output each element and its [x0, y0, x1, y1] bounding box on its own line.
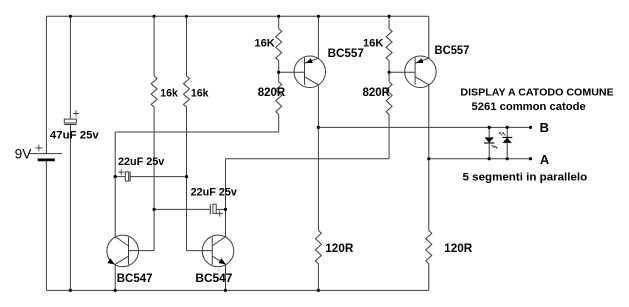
led D2 bottom lead	[506, 143, 509, 160]
wire 120R R8 bottom lead	[428, 264, 430, 291]
svg-text:120R: 120R	[325, 243, 354, 255]
wire Q2 collector riser	[225, 159, 227, 237]
wire U2 emitter from rail	[428, 16, 430, 58]
capacitor C2 22uF body	[125, 171, 130, 181]
svg-text:22uF 25v: 22uF 25v	[191, 187, 238, 199]
resistor R3 16K body	[276, 29, 282, 61]
node B line	[318, 126, 532, 129]
label display subtitle	[472, 101, 586, 113]
capacitor C3 plus sign	[217, 210, 223, 216]
wire U2 collector to 120R R8	[427, 157, 430, 230]
wire 16K R4 top lead	[388, 15, 391, 29]
label R8 120R	[444, 243, 473, 255]
led D1 bottom lead	[488, 143, 491, 160]
svg-text:BC557: BC557	[435, 43, 470, 57]
wire 47uF bottom lead	[69, 124, 72, 292]
label R1 16k	[160, 88, 178, 100]
wire battery to bottom rail	[45, 161, 47, 291]
label C1 47uF 25v	[50, 129, 100, 141]
svg-text:9V: 9V	[15, 145, 32, 161]
label U2 BC557	[435, 43, 470, 57]
wire 820R R5 bottom L-link to Q1 collector	[115, 115, 279, 237]
capacitor C3 22uF body	[210, 204, 216, 214]
svg-text:16k: 16k	[191, 88, 209, 100]
label C3 22uF 25v	[191, 187, 238, 199]
transistor U1 BC557 pnp	[277, 56, 325, 88]
wire U1 collector to 120R R7	[317, 126, 320, 231]
resistor R2 16k body	[184, 76, 190, 107]
capacitor C1 47uF body	[64, 119, 76, 124]
svg-text:820R: 820R	[363, 87, 391, 99]
led D1 light arrows	[492, 145, 498, 149]
svg-text:BC557: BC557	[328, 46, 365, 60]
transistor U2 BC557 pnp	[388, 56, 437, 88]
svg-text:16K: 16K	[363, 38, 383, 50]
wire 16k R1 top lead	[153, 15, 156, 76]
battery B1 9V positive plate	[30, 153, 63, 155]
battery B1 negative plate	[38, 158, 55, 161]
wire 16K R3 top lead	[277, 15, 280, 29]
resistor R5 820R body	[276, 82, 282, 115]
svg-text:B: B	[540, 120, 549, 135]
wire U2 collector drop	[428, 85, 430, 159]
wire U1 emitter to rail	[317, 15, 320, 59]
wire Q2 emitter to rail	[224, 264, 227, 292]
label 9V	[15, 145, 32, 161]
label R2 16k	[191, 88, 209, 100]
wire top positive rail	[46, 15, 428, 17]
svg-text:5 segmenti in parallelo: 5 segmenti in parallelo	[463, 171, 588, 183]
label Q1 BC547	[117, 271, 153, 285]
resistor R8 120R body	[426, 231, 432, 264]
wire C3 link Q1-base to Q2-collector	[153, 208, 228, 211]
led D2 body	[503, 137, 513, 143]
resistor R7 120R body	[315, 231, 321, 264]
resistor R4 16K body	[386, 29, 392, 61]
wire 16K R3 to 820R R5 node	[278, 61, 280, 82]
svg-text:BC547: BC547	[195, 271, 232, 285]
label segments note	[463, 171, 588, 183]
svg-text:16k: 16k	[160, 88, 178, 100]
transistor Q2 BC547	[202, 235, 234, 267]
led D2 light arrows	[499, 132, 505, 135]
svg-text:16K: 16K	[254, 38, 274, 50]
led D1 top lead	[488, 126, 491, 138]
svg-text:A: A	[540, 152, 550, 167]
wire 16k R2 bottom to Q2 base	[187, 107, 213, 251]
resistor R1 16k body	[151, 76, 157, 107]
wire 16K R4 to 820R R6 node	[388, 61, 390, 82]
led D1 body	[484, 137, 494, 143]
capacitor C2 plus sign	[118, 169, 124, 175]
label R6 820R	[363, 87, 391, 99]
svg-text:DISPLAY A CATODO COMUNE: DISPLAY A CATODO COMUNE	[460, 87, 613, 99]
label C2 22uF 25v	[118, 156, 165, 168]
resistor R6 820R body	[386, 82, 392, 115]
wire C2 link Q1-collector to Q2-base	[114, 175, 188, 178]
wire 820R R6 bottom L-link to Q2 collector	[226, 115, 390, 159]
svg-text:47uF 25v: 47uF 25v	[50, 129, 100, 141]
wire 16k R2 top lead	[185, 15, 188, 76]
svg-text:22uF 25v: 22uF 25v	[118, 156, 165, 168]
svg-text:820R: 820R	[258, 87, 286, 99]
node A line	[429, 157, 532, 160]
led D2 top lead	[506, 126, 509, 138]
svg-text:BC547: BC547	[117, 271, 153, 285]
battery B1 plus sign	[35, 145, 42, 152]
wire 120R R7 bottom lead	[317, 264, 320, 292]
wire 16k R1 bottom to Q1 base	[128, 107, 154, 251]
wire 47uF top lead	[69, 15, 72, 119]
wire bottom ground rail	[46, 289, 428, 291]
label U1 BC557	[328, 46, 365, 60]
svg-text:5261 common catode: 5261 common catode	[472, 101, 586, 113]
transistor Q1 BC547	[107, 235, 139, 267]
label Q2 BC547	[195, 271, 232, 285]
label R7 120R	[325, 243, 354, 255]
capacitor C1 plus sign	[73, 110, 79, 116]
label R5 820R	[258, 87, 286, 99]
wire left battery drop	[45, 16, 47, 153]
label R4 16K	[363, 38, 383, 50]
label display title	[460, 87, 613, 99]
wire U1 collector drop	[317, 85, 319, 127]
label node B	[540, 120, 549, 135]
svg-text:120R: 120R	[444, 243, 473, 255]
label R3 16K	[254, 38, 274, 50]
wire Q1 emitter to rail	[114, 264, 117, 292]
label node A	[540, 152, 550, 167]
